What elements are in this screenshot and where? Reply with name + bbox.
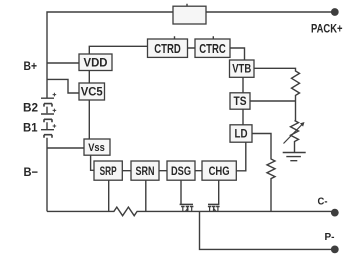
svg-text:B−: B− — [24, 165, 39, 179]
svg-text:CTRC: CTRC — [199, 42, 226, 56]
svg-text:PACK+: PACK+ — [311, 23, 343, 35]
svg-text:CHG: CHG — [209, 164, 230, 178]
svg-text:B+: B+ — [24, 59, 38, 73]
svg-text:B1: B1 — [23, 121, 38, 135]
svg-text:TS: TS — [234, 94, 247, 108]
svg-text:SRN: SRN — [136, 164, 155, 178]
svg-text:DSG: DSG — [171, 164, 191, 178]
svg-text:Vss: Vss — [88, 142, 105, 154]
svg-text:P-: P- — [325, 231, 335, 243]
svg-text:B2: B2 — [23, 101, 38, 115]
svg-text:CTRD: CTRD — [154, 42, 181, 56]
svg-text:LD: LD — [235, 127, 248, 141]
svg-text:SRP: SRP — [100, 164, 117, 178]
svg-text:VTB: VTB — [232, 62, 251, 76]
svg-text:VDD: VDD — [84, 55, 108, 69]
svg-text:C-: C- — [318, 196, 328, 208]
svg-text:VC5: VC5 — [81, 85, 103, 99]
